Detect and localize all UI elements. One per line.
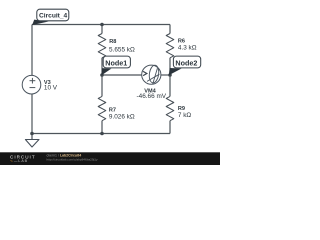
ground xyxy=(25,140,39,148)
wire R8 bottom lead xyxy=(101,58,103,75)
junction Node2 xyxy=(168,73,172,77)
resistor R9 xyxy=(166,96,174,120)
wire R9 top lead xyxy=(169,75,171,96)
wire left vertical lower xyxy=(31,94,33,134)
junction R7 bottom xyxy=(100,132,104,136)
svg-text:9.026 kΩ: 9.026 kΩ xyxy=(109,113,135,120)
wire R7 top lead xyxy=(101,75,103,96)
svg-text:10 V: 10 V xyxy=(44,85,58,92)
svg-text:5.655 kΩ: 5.655 kΩ xyxy=(109,46,135,53)
voltage source V3 xyxy=(22,75,41,94)
svg-text:7 kΩ: 7 kΩ xyxy=(178,112,192,119)
svg-text:Node2: Node2 xyxy=(175,59,197,68)
wire left vertical upper xyxy=(31,25,33,76)
junction top R8 xyxy=(100,23,104,27)
svg-text:R6: R6 xyxy=(178,38,185,44)
node Node2 callout xyxy=(169,56,201,75)
junction Node1 xyxy=(100,73,104,77)
resistor R6 xyxy=(166,34,174,58)
wire R6 top lead xyxy=(169,25,171,34)
svg-text:Circuit_4: Circuit_4 xyxy=(39,13,68,20)
wire bottom horizontal xyxy=(32,133,170,135)
svg-text:-46.66 mV: -46.66 mV xyxy=(137,93,167,100)
svg-text:∿—LAB: ∿—LAB xyxy=(10,159,28,163)
svg-text:4.3 kΩ: 4.3 kΩ xyxy=(178,45,197,52)
svg-text:http://circuitlab.com/c/abp846: http://circuitlab.com/c/abp846ba29j1y xyxy=(47,157,99,161)
wire R8 top lead xyxy=(101,25,103,34)
svg-text:Node1: Node1 xyxy=(105,59,127,68)
svg-text:R8: R8 xyxy=(109,39,116,45)
wire R7 bottom lead xyxy=(101,121,103,134)
wire R6 bottom lead xyxy=(169,58,171,75)
resistor R8 xyxy=(98,34,106,58)
node Node1 callout xyxy=(102,56,131,75)
wire R9 bottom lead xyxy=(169,121,171,134)
resistor R7 xyxy=(98,96,106,120)
wire mid right (VM4 to Node2) xyxy=(161,74,170,76)
voltmeter VM4 xyxy=(142,65,161,85)
wire top horizontal xyxy=(32,24,170,26)
node Circuit_4 callout xyxy=(32,9,69,25)
wire mid left (Node1 to VM4) xyxy=(102,74,142,76)
footer bar xyxy=(0,152,220,165)
wire ground stub xyxy=(31,134,33,140)
junction ground xyxy=(30,132,34,136)
